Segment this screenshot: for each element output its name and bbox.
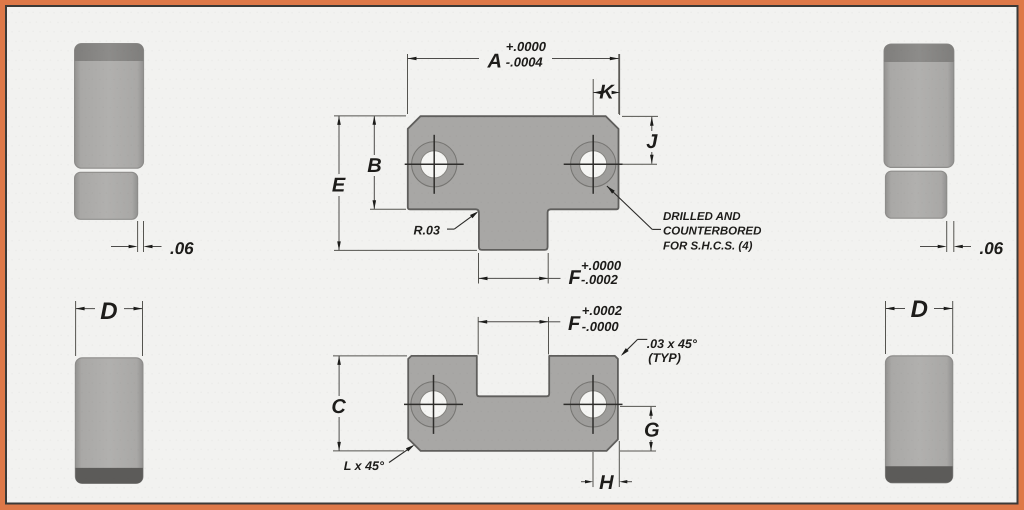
counterbored hole, bottom view right [564, 375, 623, 434]
side view bottom-right: dark bottom band [886, 466, 953, 483]
side view top-left: main body [75, 44, 144, 169]
dimension H [581, 441, 632, 494]
part: T-plate (top view) [408, 116, 619, 250]
dimension D (bottom-right) [886, 296, 953, 354]
dimension J [622, 116, 658, 164]
side view bottom-left: body [75, 358, 142, 484]
side view top-right: main body [884, 44, 954, 167]
note L x 45 with leader [344, 445, 415, 473]
side view top-right: dark top band [884, 44, 954, 62]
side view top-left: lower block [75, 172, 138, 219]
dimension .06 (top-right) [920, 221, 1004, 258]
side view bottom-right: body [886, 356, 953, 483]
dimension F +.0002/-.0000 (slot width) [478, 303, 622, 354]
dimension K [593, 54, 619, 115]
dimension C [331, 356, 407, 451]
note: drilled and counterbored, with leader [607, 186, 761, 253]
counterbored hole, top view left [405, 135, 464, 194]
side view bottom-left: dark bottom band [75, 468, 142, 484]
part: U-plate (bottom view) [408, 356, 618, 451]
counterbored hole, top view right [564, 135, 623, 194]
dimension D (bottom-left) [76, 298, 143, 356]
dimension .06 (top-left) [111, 221, 194, 258]
note R.03 with leader [414, 211, 479, 237]
dimension E [332, 116, 477, 251]
dimension A +.0000/-.0004 [408, 39, 619, 114]
note .03 x 45 (TYP) with leader [621, 337, 698, 365]
dimension F +.0000/-.0002 (tab width) [479, 253, 622, 289]
dimension G [620, 406, 660, 451]
counterbored hole, bottom view left [404, 375, 463, 434]
side view top-left: dark top band [75, 44, 144, 61]
side view top-right: lower block [886, 171, 947, 218]
dimension B [367, 116, 406, 210]
